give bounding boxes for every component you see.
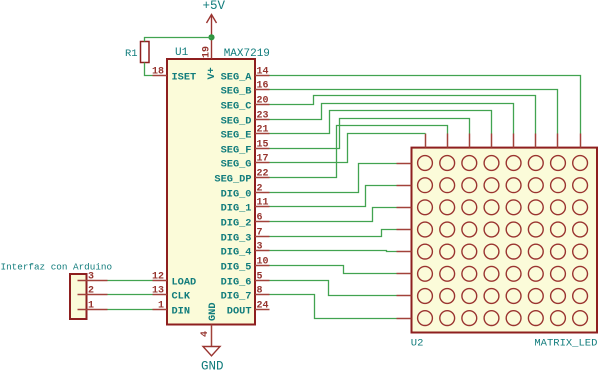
matrix top pin stub col7 xyxy=(557,134,559,148)
connector pin 3 xyxy=(78,280,108,282)
svg-text:12: 12 xyxy=(152,271,164,282)
svg-text:DOUT: DOUT xyxy=(227,306,252,318)
svg-text:ISET: ISET xyxy=(172,72,197,84)
resistor R1 xyxy=(141,42,150,63)
wire DIG_3 to matrix left row4 xyxy=(270,230,397,237)
svg-text:15: 15 xyxy=(257,139,269,150)
pin DIN stub xyxy=(153,309,168,311)
svg-text:4: 4 xyxy=(200,331,211,337)
wire connector to LOAD xyxy=(108,280,153,282)
svg-text:DIN: DIN xyxy=(172,306,191,318)
svg-text:2: 2 xyxy=(257,183,263,194)
wire R1 top to +5V junction xyxy=(145,38,212,42)
matrix LED circles row4 xyxy=(418,222,433,237)
wire SEG_B to matrix top col7 xyxy=(270,90,558,134)
svg-text:GND: GND xyxy=(201,359,224,370)
svg-text:13: 13 xyxy=(152,285,164,296)
svg-text:SEG_A: SEG_A xyxy=(221,72,253,84)
svg-text:3: 3 xyxy=(257,241,263,252)
svg-text:LOAD: LOAD xyxy=(172,277,197,289)
svg-text:10: 10 xyxy=(257,256,269,267)
matrix left pin stub row3 xyxy=(397,207,412,209)
pin DIG_4 stub xyxy=(255,250,270,252)
pin CLK stub xyxy=(153,294,168,296)
junction node xyxy=(208,34,214,40)
wire SEG_F to matrix top col3 xyxy=(270,119,470,149)
pin DIG_0 stub xyxy=(255,192,270,194)
wire R1 bottom to ISET pin xyxy=(145,63,153,76)
pin DIG_2 stub xyxy=(255,221,270,223)
svg-text:DIG_3: DIG_3 xyxy=(221,233,252,245)
matrix LED circles row3 xyxy=(418,200,433,215)
svg-text:14: 14 xyxy=(257,66,269,77)
matrix top pin stub col2 xyxy=(447,134,449,148)
svg-text:SEG_DP: SEG_DP xyxy=(214,174,251,186)
matrix top pin stub col4 xyxy=(491,134,493,148)
pin SEG_DP stub xyxy=(255,177,270,179)
wire connector to CLK xyxy=(108,294,153,296)
pin SEG_C stub xyxy=(255,104,270,106)
pin DIG_3 stub xyxy=(255,236,270,238)
IC U1 body MAX7219 xyxy=(167,59,255,325)
svg-text:SEG_D: SEG_D xyxy=(221,116,252,128)
pin DIG_1 stub xyxy=(255,206,270,208)
matrix top pin stub col5 xyxy=(513,134,515,148)
svg-text:SEG_C: SEG_C xyxy=(221,101,252,113)
matrix LED circles row2 xyxy=(418,178,433,193)
svg-text:U1: U1 xyxy=(175,47,189,59)
svg-text:20: 20 xyxy=(257,95,269,106)
matrix left pin stub row8 xyxy=(397,318,412,320)
svg-text:18: 18 xyxy=(152,66,164,77)
svg-text:DIG_2: DIG_2 xyxy=(221,218,252,230)
svg-text:GND: GND xyxy=(207,302,219,321)
matrix LED circles row6 xyxy=(418,266,433,281)
matrix LED circles row5 xyxy=(418,244,433,259)
wire SEG_DP to matrix top col2 xyxy=(270,126,448,178)
svg-text:11: 11 xyxy=(257,197,269,208)
svg-text:SEG_E: SEG_E xyxy=(221,130,252,142)
svg-text:DIG_7: DIG_7 xyxy=(221,291,252,303)
svg-text:22: 22 xyxy=(257,168,269,179)
svg-text:7: 7 xyxy=(257,227,263,238)
pin GND stub xyxy=(211,325,213,347)
pin ISET stub xyxy=(153,75,168,77)
svg-text:19: 19 xyxy=(202,46,213,58)
matrix LED circles row1 xyxy=(418,156,433,171)
LED matrix U2 body xyxy=(412,148,598,333)
matrix top pin stub col3 xyxy=(469,134,471,148)
pin SEG_E stub xyxy=(255,133,270,135)
svg-text:DIG_5: DIG_5 xyxy=(221,262,252,274)
matrix left pin stub row4 xyxy=(397,229,412,231)
pin SEG_D stub xyxy=(255,119,270,121)
wire DIG_1 to matrix left row2 xyxy=(270,186,397,207)
svg-text:SEG_B: SEG_B xyxy=(221,86,252,98)
matrix left pin stub row2 xyxy=(397,185,412,187)
svg-text:U2: U2 xyxy=(411,338,424,350)
svg-text:16: 16 xyxy=(257,80,269,91)
matrix LED circles row7 xyxy=(418,289,433,304)
svg-text:Interfaz con Arduino: Interfaz con Arduino xyxy=(1,262,113,273)
wire DIG_0 to matrix left row1 xyxy=(270,164,397,193)
svg-text:1: 1 xyxy=(158,300,164,311)
pin SEG_G stub xyxy=(255,162,270,164)
pin DIG_5 stub xyxy=(255,265,270,267)
svg-text:DIG_4: DIG_4 xyxy=(221,247,252,259)
matrix left pin stub row6 xyxy=(397,273,412,275)
wire connector to DIN xyxy=(108,309,153,311)
power +5V symbol xyxy=(207,15,217,60)
wire DIG_5 to matrix left row6 xyxy=(270,266,397,274)
svg-text:DIG_1: DIG_1 xyxy=(221,203,252,215)
wire SEG_E to matrix top col4 xyxy=(270,111,492,134)
svg-text:5: 5 xyxy=(257,271,263,282)
wire SEG_D to matrix top col5 xyxy=(270,104,514,134)
matrix left pin stub row1 xyxy=(397,163,412,165)
svg-text:1: 1 xyxy=(88,300,94,311)
svg-text:DIG_0: DIG_0 xyxy=(221,189,252,201)
svg-text:MATRIX_LED: MATRIX_LED xyxy=(534,338,597,350)
pin DIG_7 stub xyxy=(255,294,270,296)
svg-text:V+: V+ xyxy=(206,67,218,79)
svg-text:+5V: +5V xyxy=(203,0,226,13)
svg-text:SEG_G: SEG_G xyxy=(221,159,252,171)
wire SEG_C to matrix top col6 xyxy=(270,96,536,134)
connector J1 Interfaz con Arduino xyxy=(70,274,87,319)
svg-text:3: 3 xyxy=(88,271,94,282)
svg-text:24: 24 xyxy=(257,300,269,311)
svg-text:DIG_6: DIG_6 xyxy=(221,277,252,289)
svg-text:MAX7219: MAX7219 xyxy=(224,48,270,60)
pin SEG_A stub xyxy=(255,75,270,77)
matrix left pin stub row7 xyxy=(397,295,412,297)
svg-text:CLK: CLK xyxy=(172,291,191,303)
matrix LED circles row8 xyxy=(418,311,433,326)
wire DIG_2 to matrix left row3 xyxy=(270,208,397,222)
wire SEG_G to matrix top col1 xyxy=(270,134,426,163)
wire DIG_4 to matrix left row5 xyxy=(270,251,397,252)
svg-text:R1: R1 xyxy=(125,48,138,60)
svg-text:SEG_F: SEG_F xyxy=(221,145,252,157)
connector pin 2 xyxy=(78,294,108,296)
svg-text:21: 21 xyxy=(257,124,269,135)
wire SEG_A to matrix top col8 xyxy=(270,76,581,134)
wire DIG_7 to matrix left row8 xyxy=(270,295,397,319)
svg-text:2: 2 xyxy=(88,285,94,296)
matrix left pin stub row5 xyxy=(397,251,412,253)
svg-text:23: 23 xyxy=(257,110,269,121)
wire DIG_6 to matrix left row7 xyxy=(270,281,397,296)
pin LOAD stub xyxy=(153,280,168,282)
matrix top pin stub col8 xyxy=(580,134,582,148)
matrix top pin stub col6 xyxy=(535,134,537,148)
matrix top pin stub col1 xyxy=(425,134,427,148)
pin DOUT stub xyxy=(255,309,270,311)
svg-text:6: 6 xyxy=(257,212,263,223)
ground symbol xyxy=(203,347,220,356)
connector pin 1 xyxy=(78,309,108,311)
pin SEG_F stub xyxy=(255,148,270,150)
svg-text:8: 8 xyxy=(257,285,263,296)
pin DIG_6 stub xyxy=(255,280,270,282)
pin SEG_B stub xyxy=(255,89,270,91)
svg-text:17: 17 xyxy=(257,153,269,164)
